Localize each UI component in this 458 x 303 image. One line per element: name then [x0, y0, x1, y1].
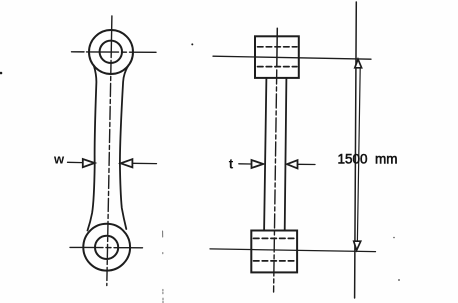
- svg-text:w: w: [53, 152, 65, 167]
- svg-text:t: t: [229, 157, 234, 172]
- svg-text:1500 mm: 1500 mm: [338, 151, 398, 166]
